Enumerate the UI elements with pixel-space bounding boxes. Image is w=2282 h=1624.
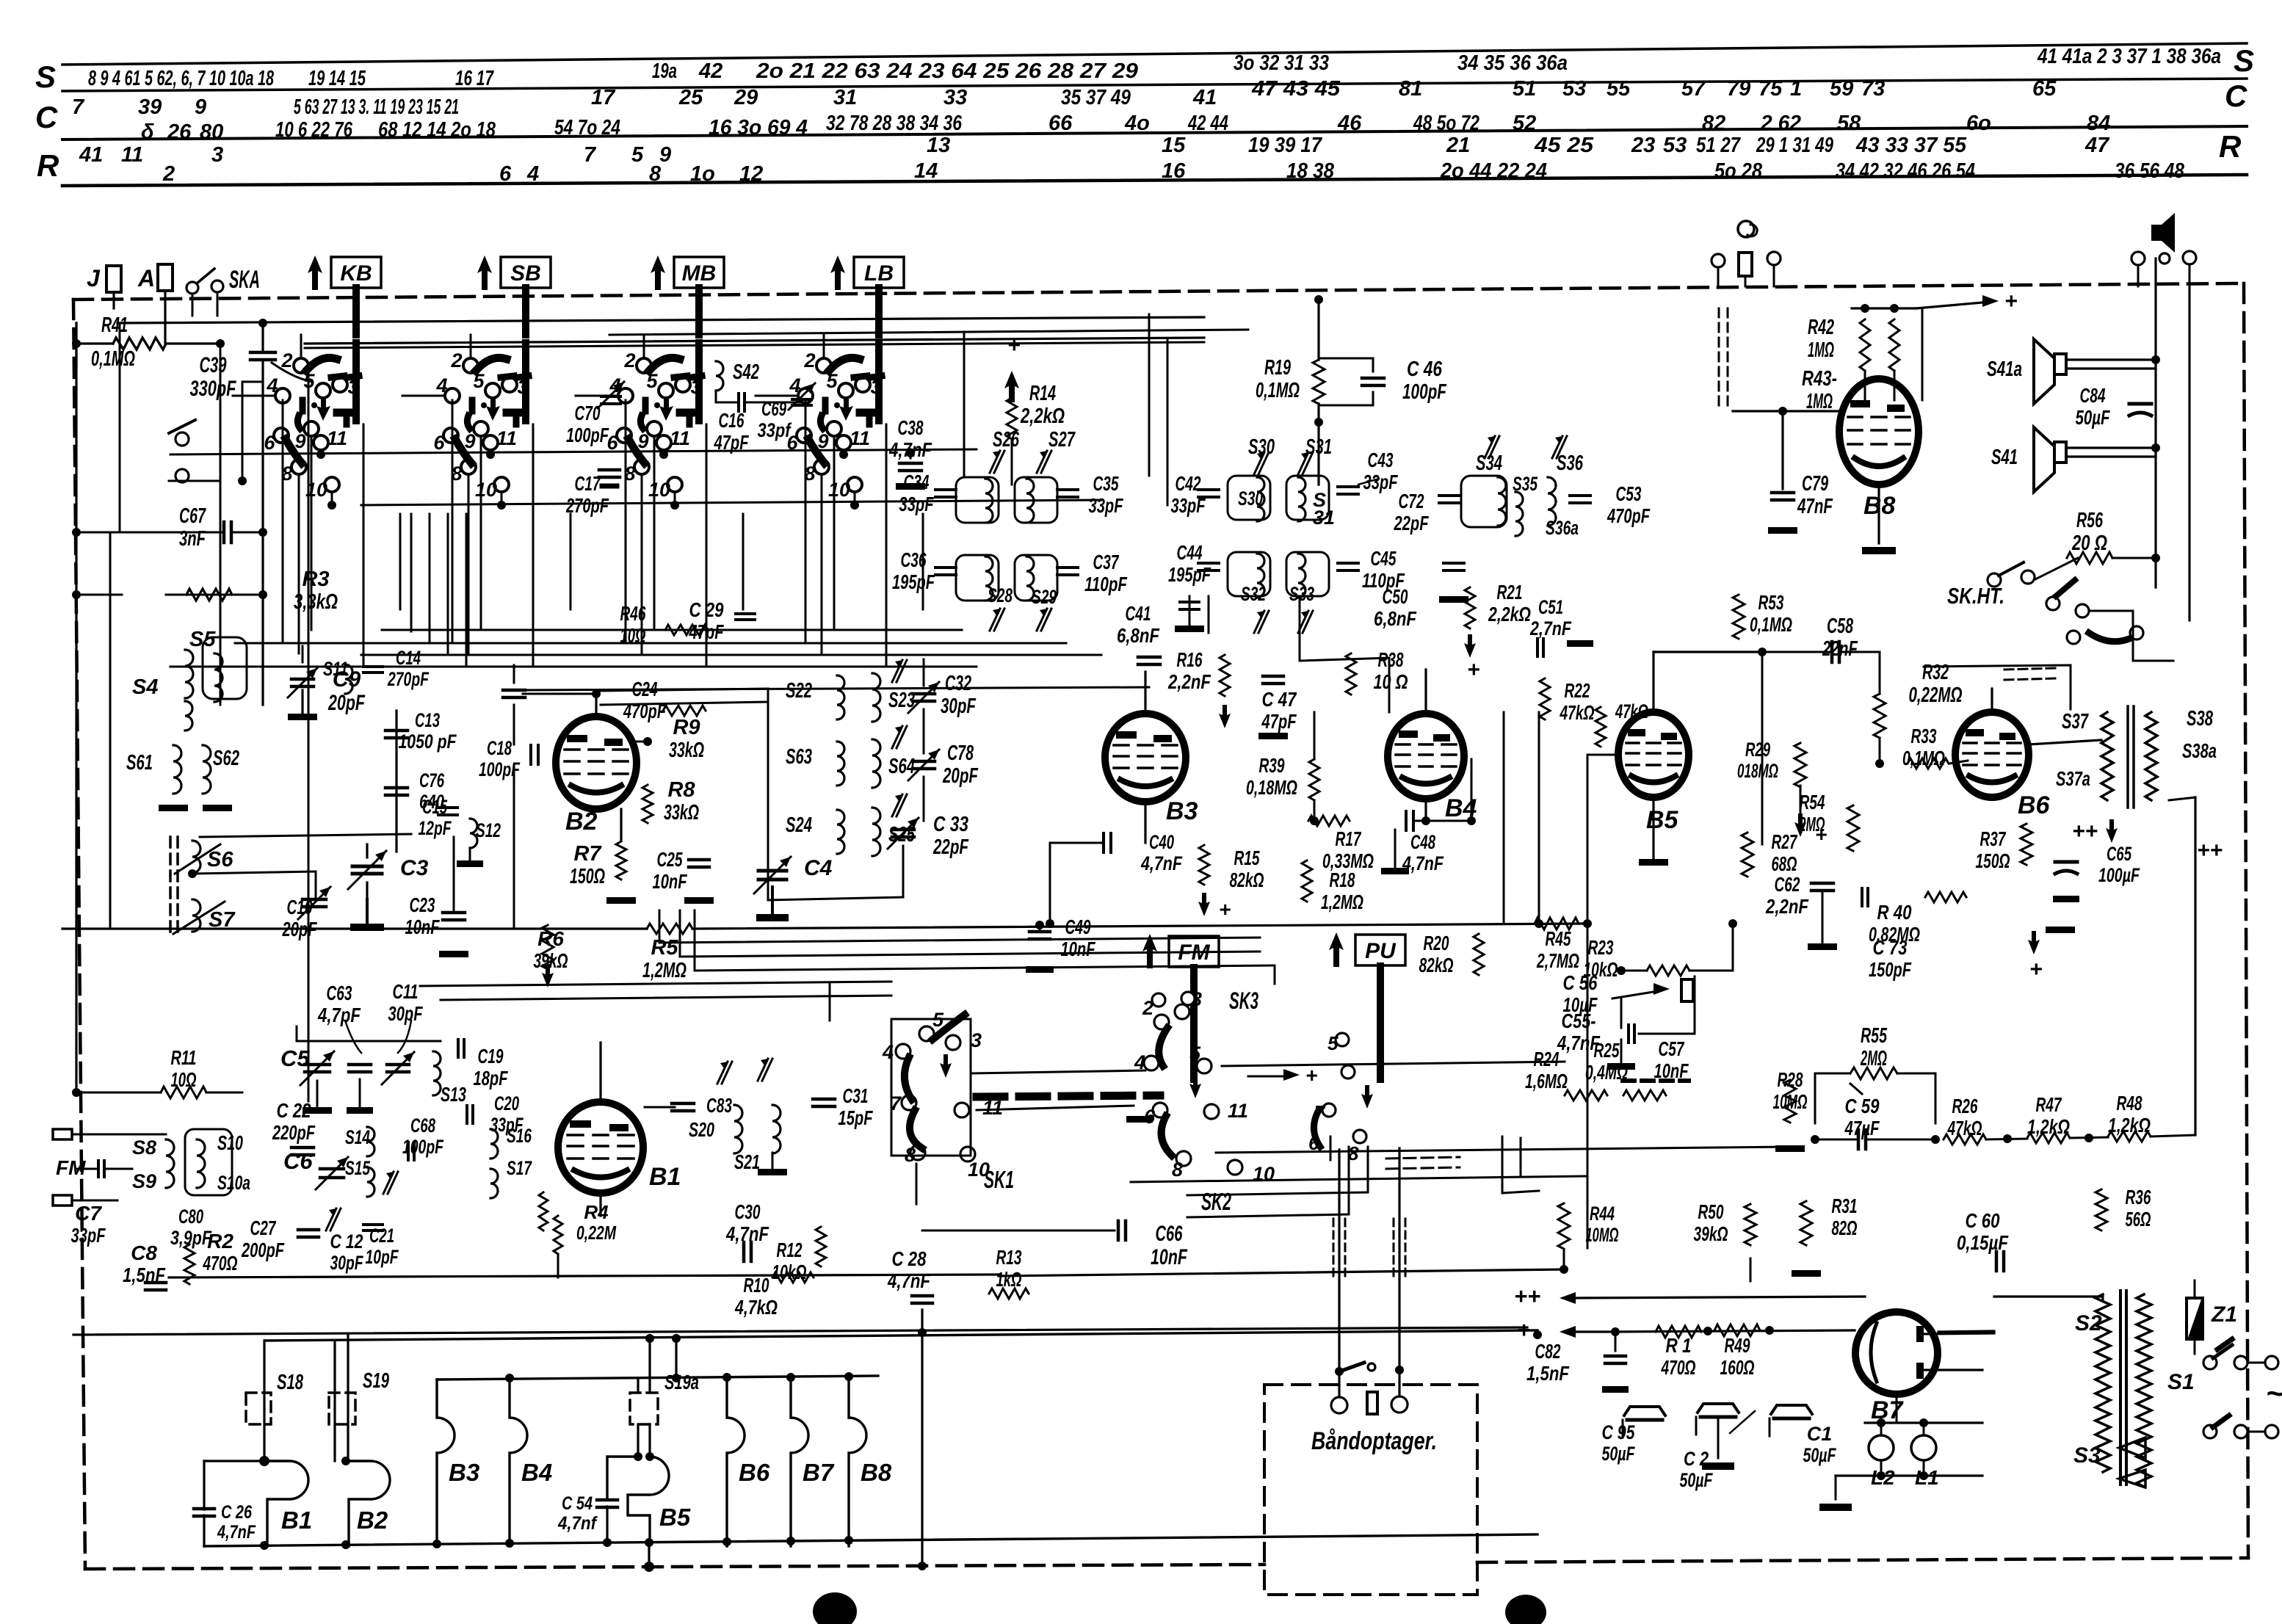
svg-text:B3: B3 <box>1166 797 1198 825</box>
svg-text:C13: C13 <box>415 709 440 731</box>
svg-text:018MΩ: 018MΩ <box>1737 760 1778 782</box>
svg-text:42: 42 <box>698 59 722 83</box>
svg-text:C41: C41 <box>1126 602 1151 625</box>
svg-text:34 35 36 36a: 34 35 36 36a <box>1457 51 1568 75</box>
svg-text:50µF: 50µF <box>2076 406 2111 429</box>
svg-text:S1: S1 <box>2167 1370 2195 1394</box>
svg-text:+: + <box>2004 289 2018 313</box>
svg-text:2,2kΩ: 2,2kΩ <box>1488 603 1531 626</box>
svg-text:C8: C8 <box>131 1241 157 1264</box>
svg-text:30pF: 30pF <box>388 1002 424 1025</box>
svg-text:++: ++ <box>2072 819 2098 844</box>
svg-text:41: 41 <box>79 143 103 167</box>
svg-text:7: 7 <box>72 95 85 119</box>
svg-text:82kΩ: 82kΩ <box>1419 954 1454 976</box>
svg-text:S34: S34 <box>1476 452 1502 475</box>
svg-text:81: 81 <box>1399 77 1422 101</box>
svg-text:C79: C79 <box>1802 472 1828 496</box>
svg-text:C45: C45 <box>1371 547 1397 570</box>
svg-text:5 63 27 13 3. 11 19 23 15 21: 5 63 27 13 3. 11 19 23 15 21 <box>294 95 459 119</box>
svg-text:82kΩ: 82kΩ <box>1230 869 1264 891</box>
svg-text:S63: S63 <box>786 745 812 769</box>
svg-text:0,18MΩ: 0,18MΩ <box>1246 776 1297 799</box>
svg-text:C6: C6 <box>283 1148 313 1174</box>
svg-text:2,7nF: 2,7nF <box>1529 617 1572 639</box>
svg-text:S: S <box>2234 43 2254 78</box>
svg-text:22nF: 22nF <box>1822 637 1858 661</box>
svg-text:82: 82 <box>1702 112 1725 135</box>
svg-text:51: 51 <box>1513 77 1536 101</box>
svg-text:B1: B1 <box>649 1163 681 1191</box>
svg-text:10MΩ: 10MΩ <box>1586 1224 1619 1246</box>
svg-text:SK.HT.: SK.HT. <box>1947 583 2004 609</box>
svg-text:34 42 32 46 26 54: 34 42 32 46 26 54 <box>1836 159 1975 183</box>
svg-text:C 95: C 95 <box>1602 1421 1636 1443</box>
svg-text:52: 52 <box>1513 112 1536 135</box>
svg-text:33pF: 33pF <box>490 1114 524 1136</box>
svg-text:B2: B2 <box>357 1507 388 1534</box>
svg-text:SK3: SK3 <box>1229 987 1258 1014</box>
svg-text:1MΩ: 1MΩ <box>1806 390 1833 413</box>
svg-text:10nF: 10nF <box>1151 1245 1187 1269</box>
svg-text:S9: S9 <box>132 1170 156 1192</box>
svg-text:S3: S3 <box>2073 1443 2101 1468</box>
svg-text:43 33 37 55: 43 33 37 55 <box>1855 134 1967 157</box>
svg-text:33kΩ: 33kΩ <box>669 739 704 762</box>
svg-text:48 5o 72: 48 5o 72 <box>1413 112 1479 135</box>
svg-text:S38a: S38a <box>2182 739 2217 762</box>
svg-text:1,6MΩ: 1,6MΩ <box>1525 1070 1568 1092</box>
svg-text:C: C <box>2225 79 2247 113</box>
svg-text:C65: C65 <box>2107 843 2132 865</box>
svg-text:16 17: 16 17 <box>455 67 494 90</box>
svg-text:C67: C67 <box>179 504 206 528</box>
svg-text:R54: R54 <box>1800 791 1825 813</box>
svg-text:C39: C39 <box>200 353 227 377</box>
svg-text:R6: R6 <box>537 927 564 950</box>
svg-text:R33: R33 <box>1911 725 1937 747</box>
svg-text:R9: R9 <box>673 716 700 739</box>
svg-text:47pF: 47pF <box>689 620 724 643</box>
svg-text:2: 2 <box>623 349 635 371</box>
svg-text:C44: C44 <box>1177 541 1203 564</box>
svg-text:C 73: C 73 <box>1873 936 1908 959</box>
svg-text:9: 9 <box>464 430 475 452</box>
svg-text:R18: R18 <box>1330 869 1355 891</box>
svg-text:195pF: 195pF <box>1168 563 1211 586</box>
svg-text:160Ω: 160Ω <box>1720 1356 1755 1379</box>
svg-text:5: 5 <box>1189 1043 1201 1065</box>
svg-text:10nF: 10nF <box>405 916 441 938</box>
svg-text:S41: S41 <box>1991 446 2018 469</box>
svg-text:MB: MB <box>682 261 717 286</box>
svg-text:10nF: 10nF <box>1061 938 1096 960</box>
svg-text:10Ω: 10Ω <box>171 1068 197 1091</box>
svg-text:R27: R27 <box>1772 830 1798 853</box>
svg-text:B1: B1 <box>281 1507 312 1534</box>
svg-text:2o 21 22 63 24 23 64 25: 2o 21 22 63 24 23 64 25 26 28 27 29 <box>756 59 1138 83</box>
svg-text:73: 73 <box>1861 77 1885 101</box>
svg-text:S23: S23 <box>888 689 915 712</box>
svg-text:C42: C42 <box>1176 472 1201 495</box>
svg-text:B3: B3 <box>449 1459 479 1486</box>
svg-text:4,7nF: 4,7nF <box>217 1522 256 1543</box>
svg-text:R5: R5 <box>651 936 678 960</box>
svg-text:41 41a 2 3 37 1 38 36a: 41 41a 2 3 37 1 38 36a <box>2037 45 2221 68</box>
svg-text:12pF: 12pF <box>419 817 452 839</box>
svg-text:S15: S15 <box>345 1157 371 1179</box>
svg-text:C37: C37 <box>1093 551 1120 573</box>
svg-text:53: 53 <box>1562 77 1586 101</box>
svg-text:16 3o 69 4: 16 3o 69 4 <box>709 116 808 139</box>
svg-text:36 56 48: 36 56 48 <box>2115 159 2185 183</box>
svg-text:10: 10 <box>1253 1163 1275 1185</box>
svg-text:S33: S33 <box>1289 583 1314 605</box>
svg-text:11: 11 <box>850 427 870 449</box>
svg-text:10pF: 10pF <box>366 1246 399 1268</box>
svg-text:14: 14 <box>914 159 938 183</box>
svg-text:330pF: 330pF <box>190 377 236 401</box>
svg-text:SK2: SK2 <box>1201 1188 1231 1215</box>
svg-text:R23: R23 <box>1588 936 1614 959</box>
svg-text:S19: S19 <box>363 1369 389 1393</box>
svg-text:R 40: R 40 <box>1877 901 1912 924</box>
svg-text:C51: C51 <box>1538 596 1563 618</box>
svg-text:79: 79 <box>1727 77 1750 101</box>
svg-text:R50: R50 <box>1698 1200 1724 1223</box>
svg-text:+: + <box>1467 658 1480 682</box>
svg-text:3: 3 <box>1191 988 1202 1010</box>
svg-text:C35: C35 <box>1093 472 1119 495</box>
svg-text:22pF: 22pF <box>1394 512 1429 534</box>
svg-text:C21: C21 <box>369 1225 394 1247</box>
svg-text:10kΩ: 10kΩ <box>772 1261 807 1283</box>
svg-text:C72: C72 <box>1399 490 1424 512</box>
svg-text:5: 5 <box>1327 1032 1339 1054</box>
svg-text:S14: S14 <box>345 1126 370 1148</box>
svg-text:C 46: C 46 <box>1407 358 1443 381</box>
svg-text:4,7kΩ: 4,7kΩ <box>734 1296 778 1319</box>
svg-text:30pF: 30pF <box>330 1252 364 1274</box>
svg-text:S61: S61 <box>126 751 153 775</box>
svg-text:R36: R36 <box>2126 1186 2151 1208</box>
svg-text:C40: C40 <box>1149 831 1174 853</box>
svg-text:S8: S8 <box>132 1137 156 1159</box>
svg-text:S29: S29 <box>1032 586 1057 608</box>
svg-text:C43: C43 <box>1368 449 1394 471</box>
svg-text:C50: C50 <box>1383 585 1408 608</box>
svg-text:5o 28: 5o 28 <box>1714 159 1763 183</box>
svg-text:2: 2 <box>803 349 815 371</box>
svg-text:R25: R25 <box>1594 1039 1620 1062</box>
svg-text:S36: S36 <box>1557 452 1584 475</box>
svg-text:46: 46 <box>1337 112 1362 135</box>
svg-text:B4: B4 <box>521 1459 552 1486</box>
svg-text:0,15µF: 0,15µF <box>1957 1231 2009 1254</box>
svg-text:32 78 28 38 34 36: 32 78 28 38 34 36 <box>826 112 963 135</box>
svg-text:S28: S28 <box>988 584 1013 606</box>
svg-text:26: 26 <box>167 120 192 144</box>
svg-text:80: 80 <box>200 120 223 144</box>
svg-text:C17: C17 <box>575 472 601 495</box>
svg-text:S42: S42 <box>733 360 759 384</box>
svg-text:R2: R2 <box>207 1230 233 1253</box>
svg-text:3nF: 3nF <box>179 527 206 551</box>
svg-text:1,5nF: 1,5nF <box>1526 1362 1570 1385</box>
svg-text:R48: R48 <box>2117 1092 2142 1114</box>
svg-text:42 44: 42 44 <box>1187 112 1228 135</box>
svg-text:0,1MΩ: 0,1MΩ <box>1256 379 1300 402</box>
svg-text:S10a: S10a <box>217 1172 250 1194</box>
svg-text:2,2nF: 2,2nF <box>1765 895 1808 918</box>
svg-text:B5: B5 <box>1646 806 1679 834</box>
svg-text:R4: R4 <box>584 1201 609 1223</box>
svg-text:S37a: S37a <box>2056 767 2090 790</box>
svg-text:47kΩ: 47kΩ <box>1615 700 1648 722</box>
svg-text:C11: C11 <box>393 980 419 1003</box>
svg-text:R12: R12 <box>777 1239 803 1261</box>
svg-text:C27: C27 <box>250 1217 277 1239</box>
svg-text:47 43 45: 47 43 45 <box>1251 77 1341 101</box>
svg-text:10: 10 <box>828 479 850 501</box>
svg-text:110pF: 110pF <box>1084 573 1128 595</box>
svg-text:10 Ω: 10 Ω <box>1374 670 1408 693</box>
svg-text:4: 4 <box>266 374 278 396</box>
svg-text:4,7nF: 4,7nF <box>887 1269 930 1292</box>
svg-text:S37: S37 <box>2062 710 2089 733</box>
svg-text:~: ~ <box>2266 1376 2282 1410</box>
svg-text:65: 65 <box>2032 77 2057 101</box>
svg-text:++: ++ <box>1514 1283 1540 1309</box>
svg-text:47: 47 <box>2084 134 2110 157</box>
svg-text:C18: C18 <box>487 737 512 759</box>
svg-text:9: 9 <box>294 430 305 452</box>
svg-text:33kΩ: 33kΩ <box>664 801 699 824</box>
svg-text:9: 9 <box>637 430 648 452</box>
svg-text:S36a: S36a <box>1546 517 1579 539</box>
svg-text:S11: S11 <box>323 658 348 680</box>
svg-text:470Ω: 470Ω <box>203 1252 238 1275</box>
svg-text:54 7o 24: 54 7o 24 <box>554 116 620 139</box>
svg-text:17: 17 <box>591 86 616 109</box>
svg-text:470Ω: 470Ω <box>1661 1356 1696 1379</box>
svg-text:B7: B7 <box>803 1459 835 1486</box>
svg-text:29: 29 <box>733 86 758 109</box>
svg-text:C5: C5 <box>280 1045 310 1071</box>
svg-text:C 28: C 28 <box>892 1247 927 1270</box>
svg-text:10: 10 <box>648 479 670 501</box>
svg-text:47pF: 47pF <box>1261 710 1297 733</box>
svg-text:58: 58 <box>1837 112 1861 135</box>
svg-text:R55: R55 <box>1861 1024 1888 1048</box>
svg-text:C 26: C 26 <box>221 1502 253 1523</box>
svg-text:6o: 6o <box>1966 112 1991 135</box>
svg-text:S31: S31 <box>1305 435 1332 459</box>
svg-text:R10: R10 <box>744 1274 769 1297</box>
svg-text:11: 11 <box>496 427 517 449</box>
svg-text:+: + <box>1517 1317 1530 1343</box>
svg-text:25: 25 <box>678 86 703 109</box>
svg-text:1,2MΩ: 1,2MΩ <box>642 959 687 982</box>
svg-text:C34: C34 <box>904 471 930 493</box>
svg-text:150pF: 150pF <box>1869 958 1912 981</box>
svg-text:39: 39 <box>138 95 162 119</box>
svg-text:R29: R29 <box>1745 739 1770 761</box>
svg-text:R11: R11 <box>171 1046 197 1069</box>
svg-text:2,7MΩ: 2,7MΩ <box>1536 949 1579 972</box>
svg-text:R14: R14 <box>1029 382 1056 405</box>
svg-text:4,7nf: 4,7nf <box>557 1513 598 1534</box>
svg-text:C55-: C55- <box>1562 1009 1596 1032</box>
svg-text:KB: KB <box>340 261 372 286</box>
svg-text:150Ω: 150Ω <box>570 865 605 888</box>
svg-text:18pF: 18pF <box>474 1067 509 1090</box>
svg-text:C25: C25 <box>657 848 683 871</box>
svg-text:SKA: SKA <box>229 266 260 294</box>
svg-text:270pF: 270pF <box>387 668 430 690</box>
svg-text:R3: R3 <box>302 568 329 591</box>
svg-text:2: 2 <box>1142 997 1153 1019</box>
svg-text:8: 8 <box>649 162 662 186</box>
svg-text:15: 15 <box>1162 134 1186 157</box>
svg-text:S2: S2 <box>2075 1311 2102 1335</box>
svg-text:Z1: Z1 <box>2211 1302 2237 1327</box>
svg-text:B2: B2 <box>565 808 598 835</box>
svg-text:+: + <box>2029 957 2043 982</box>
svg-text:δ: δ <box>141 120 154 144</box>
svg-text:R41: R41 <box>101 313 128 337</box>
svg-text:10MΩ: 10MΩ <box>1773 1090 1808 1113</box>
svg-text:31: 31 <box>833 86 857 109</box>
svg-text:100pF: 100pF <box>566 424 609 446</box>
svg-text:1o: 1o <box>690 162 715 186</box>
svg-text:C78: C78 <box>947 742 974 765</box>
svg-text:C82: C82 <box>1535 1340 1561 1363</box>
svg-text:C 22: C 22 <box>277 1099 311 1122</box>
svg-text:4: 4 <box>789 374 800 396</box>
svg-text:C19: C19 <box>478 1045 504 1067</box>
svg-text:47kΩ: 47kΩ <box>1560 701 1595 724</box>
svg-text:0,1MΩ: 0,1MΩ <box>1750 613 1792 636</box>
svg-text:57: 57 <box>1681 77 1706 101</box>
svg-text:C66: C66 <box>1156 1222 1183 1246</box>
svg-text:68 12 14 2o 18: 68 12 14 2o 18 <box>378 118 496 142</box>
svg-text:C63: C63 <box>327 982 352 1004</box>
svg-text:6,8nF: 6,8nF <box>1374 607 1417 630</box>
svg-text:C38: C38 <box>898 416 924 439</box>
svg-text:50µF: 50µF <box>1602 1443 1636 1465</box>
svg-text:3: 3 <box>211 143 223 167</box>
svg-text:C 29: C 29 <box>689 598 724 621</box>
svg-text:35 37 49: 35 37 49 <box>1061 86 1131 109</box>
svg-text:1,2MΩ: 1,2MΩ <box>1321 891 1363 913</box>
svg-text:30pF: 30pF <box>941 695 977 718</box>
svg-text:470pF: 470pF <box>1607 504 1650 527</box>
svg-text:R56: R56 <box>2076 509 2104 532</box>
svg-text:200pF: 200pF <box>241 1239 284 1261</box>
svg-text:220pF: 220pF <box>272 1121 315 1144</box>
svg-text:R24: R24 <box>1534 1048 1560 1070</box>
svg-text:47kΩ: 47kΩ <box>1947 1117 1982 1139</box>
svg-text:6: 6 <box>1144 1106 1156 1128</box>
svg-text:39kΩ: 39kΩ <box>534 949 568 972</box>
svg-text:10 6 22 76: 10 6 22 76 <box>275 118 353 142</box>
svg-text:33pF: 33pF <box>1171 494 1206 517</box>
svg-text:C1: C1 <box>1807 1423 1833 1445</box>
svg-text:C23: C23 <box>410 893 435 916</box>
svg-text:R17: R17 <box>1336 827 1362 850</box>
svg-text:J: J <box>87 265 101 291</box>
svg-text:S62: S62 <box>213 747 239 770</box>
svg-text:11: 11 <box>1228 1100 1248 1122</box>
svg-text:20 Ω: 20 Ω <box>2071 532 2107 555</box>
svg-text:0,1MΩ: 0,1MΩ <box>1902 747 1945 769</box>
svg-text:C 59: C 59 <box>1845 1095 1880 1117</box>
svg-text:C20: C20 <box>494 1092 519 1114</box>
svg-text:2: 2 <box>450 349 462 371</box>
svg-text:S35: S35 <box>1513 473 1538 495</box>
svg-text:1MΩ: 1MΩ <box>1808 338 1834 362</box>
svg-text:29 1 31 49: 29 1 31 49 <box>1756 134 1833 157</box>
svg-text:19 39 17: 19 39 17 <box>1248 134 1323 157</box>
svg-text:S41a: S41a <box>1987 358 2022 381</box>
svg-text:9: 9 <box>659 143 671 167</box>
svg-text:R43-: R43- <box>1802 367 1837 391</box>
svg-text:0,22M: 0,22M <box>576 1222 617 1244</box>
svg-text:S32: S32 <box>1241 583 1266 605</box>
svg-text:47µF: 47µF <box>1844 1117 1880 1139</box>
svg-text:SK1: SK1 <box>984 1166 1014 1193</box>
svg-text:55: 55 <box>1607 77 1631 101</box>
svg-text:+: + <box>1305 1064 1317 1087</box>
svg-text:11: 11 <box>121 143 143 167</box>
svg-text:1,2kΩ: 1,2kΩ <box>2027 1115 2070 1138</box>
svg-text:C 33: C 33 <box>933 813 968 836</box>
svg-text:A: A <box>137 265 155 291</box>
svg-text:C84: C84 <box>2080 384 2106 407</box>
svg-text:R28: R28 <box>1778 1068 1803 1091</box>
svg-text:R53: R53 <box>1758 591 1784 614</box>
svg-text:S64: S64 <box>888 755 915 778</box>
svg-text:C76: C76 <box>419 769 445 791</box>
svg-text:2,2nF: 2,2nF <box>1167 670 1211 693</box>
svg-text:33pF: 33pF <box>899 493 935 515</box>
svg-text:S21: S21 <box>734 1150 760 1173</box>
svg-text:C80: C80 <box>178 1206 203 1228</box>
svg-text:R37: R37 <box>1980 827 2007 850</box>
svg-text:75: 75 <box>1758 77 1783 101</box>
svg-text:C58: C58 <box>1827 615 1854 638</box>
svg-text:33pf: 33pf <box>758 419 792 441</box>
svg-text:C: C <box>35 100 58 134</box>
svg-text:33pF: 33pF <box>1089 494 1124 517</box>
svg-text:2MΩ: 2MΩ <box>1799 813 1825 835</box>
svg-text:8 9 4 61 5 62, 6, 7 10 10a 18: 8 9 4 61 5 62, 6, 7 10 10a 18 <box>88 67 275 90</box>
svg-text:S27: S27 <box>1048 428 1076 452</box>
svg-text:15pF: 15pF <box>838 1106 874 1129</box>
svg-text:R: R <box>37 148 59 183</box>
svg-text:S19a: S19a <box>664 1371 699 1393</box>
svg-text:C 12: C 12 <box>330 1230 363 1253</box>
svg-text:23: 23 <box>1631 134 1655 157</box>
svg-text:R22: R22 <box>1565 679 1590 702</box>
svg-text:R26: R26 <box>1952 1095 1978 1117</box>
svg-text:0,22MΩ: 0,22MΩ <box>1909 684 1963 707</box>
svg-text:3o 32 31 33: 3o 32 31 33 <box>1234 51 1329 75</box>
svg-text:R46: R46 <box>620 602 646 625</box>
svg-text:B6: B6 <box>739 1459 770 1486</box>
svg-text:R38: R38 <box>1378 648 1404 671</box>
